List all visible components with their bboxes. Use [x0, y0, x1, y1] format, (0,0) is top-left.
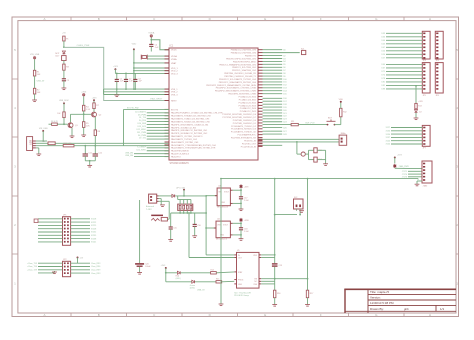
svg-text:+Chan_TX3: +Chan_TX3: [27, 263, 37, 265]
transistor Q2: [92, 112, 97, 117]
wire header rows three: [391, 127, 422, 129]
wire: [150, 46, 152, 51]
capacitor C17: [239, 196, 243, 198]
pad VIN_USB: [33, 57, 35, 59]
wire: [34, 76, 36, 88]
wire: [133, 49, 135, 89]
ground: [239, 238, 244, 240]
wire: [206, 227, 216, 229]
capacitor C12: [94, 146, 96, 154]
wire: [63, 41, 65, 47]
wire: [83, 111, 85, 122]
svg-text:(LED): (LED): [190, 288, 195, 290]
svg-text:+3V3: +3V3: [81, 91, 87, 93]
svg-text:D8: D8: [283, 73, 285, 75]
svg-text:MIC5205-3.3: MIC5205-3.3: [217, 207, 228, 209]
wire: [305, 153, 308, 155]
svg-text:JP4: JP4: [436, 60, 439, 62]
led D4 red: [177, 271, 180, 274]
svg-text:D74: D74: [382, 75, 385, 77]
ground: [415, 183, 420, 185]
svg-text:PD1/OSC_OUT: PD1/OSC_OUT: [242, 143, 257, 145]
ground: [36, 153, 41, 155]
wire: [134, 70, 169, 72]
svg-text:D1_TX0: D1_TX0: [139, 117, 146, 119]
supply arrow +3V3: [393, 164, 397, 168]
svg-text:X134: X134: [386, 134, 390, 136]
frame row ticks: [12, 78, 18, 80]
wire: [195, 281, 216, 283]
resistor R3: [63, 64, 65, 70]
wire: [233, 234, 241, 236]
ground: [299, 210, 304, 212]
svg-text:D85: D85: [382, 85, 385, 87]
svg-text:PB11/I2C2_SDA/USART3_RX/TIM2_C: PB11/I2C2_SDA/USART3_RX/TIM2_CH4: [219, 81, 257, 84]
svg-text:CHRG_PWR: CHRG_PWR: [77, 45, 90, 47]
wire: [36, 145, 63, 147]
wire: [395, 167, 422, 169]
wire: [63, 81, 65, 88]
pad node: [63, 102, 65, 104]
wire: [263, 124, 292, 126]
svg-text:1117: 1117: [55, 55, 59, 57]
svg-text:VIN_USB: VIN_USB: [30, 54, 40, 56]
component boot jumper: [302, 50, 306, 54]
svg-text:PD2/TIM3_ETR/UART5_RX: PD2/TIM3_ETR/UART5_RX: [231, 137, 257, 140]
svg-text:PA7/SPI1_MOSI/ADC12_IN7/TIM3_C: PA7/SPI1_MOSI/ADC12_IN7/TIM3_CH2: [171, 132, 208, 135]
svg-text:FB1: FB1: [42, 141, 45, 143]
wire: [71, 113, 92, 115]
svg-text:B: B: [98, 313, 100, 317]
svg-text:D10: D10: [283, 79, 286, 81]
svg-text:D13: D13: [283, 88, 286, 90]
connector JP3: [422, 31, 430, 59]
svg-text:JP3: JP3: [423, 60, 426, 62]
ground: [414, 117, 419, 119]
led D5 green: [192, 280, 195, 283]
svg-text:X140: X140: [386, 140, 390, 142]
wire: [274, 267, 276, 290]
svg-text:C19: C19: [279, 265, 282, 267]
wire: [296, 142, 298, 154]
ground: [219, 303, 224, 305]
svg-text:VDD_2: VDD_2: [171, 71, 179, 73]
wire header1 left rows: [38, 218, 63, 220]
wire: [258, 141, 339, 143]
wire: [298, 124, 327, 126]
wire: [77, 258, 79, 264]
svg-text:D18: D18: [283, 104, 286, 106]
svg-text:PA6/SPI1_MISO/ADC12_IN6/TIM3_C: PA6/SPI1_MISO/ADC12_IN6/TIM3_CH1: [171, 129, 208, 132]
wire: [139, 200, 141, 263]
svg-text:E: E: [264, 17, 266, 21]
svg-text:USB: USB: [30, 140, 33, 145]
svg-text:USB_DISC: USB_DISC: [59, 100, 70, 102]
wire: [165, 268, 167, 282]
svg-text:D54: D54: [382, 54, 385, 56]
svg-text:IO235: IO235: [91, 235, 96, 237]
svg-text:X127: X127: [386, 127, 390, 129]
svg-text:JTAG_NRST: JTAG_NRST: [150, 97, 163, 100]
title block dividers: [367, 289, 369, 313]
connector JP7: [422, 125, 430, 146]
wire: [34, 59, 36, 70]
svg-text:D7_TX1: D7_TX1: [139, 138, 146, 140]
svg-text:See : RealTouch/R: See : RealTouch/R: [234, 292, 251, 294]
svg-text:D81: D81: [382, 82, 385, 84]
resistor R15: [216, 281, 222, 283]
svg-text:PB8/TIM4_CH3/SDIO_D4/CAN_RX: PB8/TIM4_CH3/SDIO_D4/CAN_RX: [224, 72, 256, 75]
svg-text:MIC5205-3.3: MIC5205-3.3: [216, 239, 227, 241]
svg-text:Green: Green: [190, 284, 195, 287]
resistor R12: [340, 108, 342, 117]
svg-text:D6_PWM: D6_PWM: [138, 135, 147, 137]
svg-text:IC1: IC1: [170, 44, 174, 47]
svg-text:PB10/I2C2_SCL/USART3_TX/TIM2_C: PB10/I2C2_SCL/USART3_TX/TIM2_CH3: [219, 78, 257, 81]
wire: [139, 267, 141, 273]
svg-text:D64: D64: [382, 64, 385, 66]
svg-text:C16: C16: [197, 225, 200, 227]
ground: [137, 272, 142, 274]
svg-text:C15: C15: [173, 228, 176, 230]
svg-text:PA13/JTMS-SWDIO: PA13/JTMS-SWDIO: [171, 150, 189, 153]
svg-text:External: External: [146, 205, 155, 208]
wire: [206, 195, 217, 197]
svg-text:PA3/USART2_RX/ADC123_IN3/TIM2_: PA3/USART2_RX/ADC123_IN3/TIM2_CH4: [171, 120, 210, 123]
capacitor C5: [62, 78, 66, 80]
pad 3V3 led: [165, 267, 167, 269]
svg-text:IO228: IO228: [91, 228, 96, 230]
svg-text:(LED): (LED): [176, 278, 181, 280]
wire block rail: [171, 212, 206, 214]
wire CHRG net: [64, 47, 169, 100]
svg-text:1.5K: 1.5K: [86, 109, 91, 111]
connector J2 barrel jack: [149, 194, 157, 203]
ground: [160, 204, 165, 206]
resistor R7: [93, 101, 95, 103]
svg-text:R12: R12: [343, 112, 346, 114]
wire header2 right rows: [71, 262, 90, 264]
svg-text:D15: D15: [283, 93, 286, 95]
wire BOOT0: [124, 108, 170, 110]
ground: [32, 99, 37, 101]
component charger: [161, 217, 167, 221]
svg-text:JTAG_PWR: JTAG_PWR: [399, 165, 410, 168]
wire USB_DM long: [55, 142, 169, 144]
svg-text:F: F: [320, 17, 322, 21]
svg-text:GND: GND: [221, 202, 226, 204]
svg-text:PA12/USART1_RTS/USBDP/CAN_TX/T: PA12/USART1_RTS/USBDP/CAN_TX/TIM1_ETR: [171, 147, 216, 150]
svg-text:D2: D2: [419, 111, 421, 113]
IC U1 body: [169, 48, 258, 160]
wire: [258, 138, 339, 140]
svg-text:PC11/UART4_RX/SDIO_D3: PC11/UART4_RX/SDIO_D3: [231, 128, 257, 131]
svg-text:PC10/UART4_TX/SDIO_D2: PC10/UART4_TX/SDIO_D2: [231, 125, 257, 128]
led D2: [415, 110, 418, 113]
svg-text:PB12/SPI2_NSS/I2C2_SMBA/USART3: PB12/SPI2_NSS/I2C2_SMBA/USART3_CK/TIM1_B…: [206, 84, 256, 87]
wire: [335, 124, 341, 126]
svg-text:PB14/SPI2_MISO/USART3_RTS/TIM1: PB14/SPI2_MISO/USART3_RTS/TIM1_CH2N: [215, 90, 257, 93]
svg-text:VDD5: VDD5: [171, 50, 177, 52]
wire: [150, 38, 152, 45]
svg-text:VSS_3: VSS_3: [171, 94, 178, 96]
wire block pins: [179, 200, 181, 205]
svg-text:BOOT0_PB2: BOOT0_PB2: [127, 108, 140, 110]
resistor R16: [274, 290, 276, 298]
diode D1: [62, 51, 65, 54]
title block border: [344, 289, 346, 313]
svg-text:+3V3: +3V3: [418, 101, 422, 103]
node CHRG junction: [63, 46, 65, 48]
svg-text:VDD: VDD: [339, 99, 344, 101]
wire: [261, 257, 275, 259]
svg-text:SJ1: SJ1: [301, 48, 304, 50]
resistor R14: [211, 272, 217, 274]
capacitor C11: [84, 146, 86, 154]
wire: [340, 102, 342, 109]
svg-text:R16: R16: [277, 293, 280, 295]
svg-text:D33: D33: [382, 33, 385, 35]
svg-text:D14: D14: [283, 91, 286, 93]
svg-text:D0: D0: [283, 50, 285, 52]
svg-text:D24: D24: [283, 122, 286, 124]
wire: [159, 198, 162, 200]
wire: [94, 117, 96, 130]
svg-text:2.2uF: 2.2uF: [244, 231, 250, 233]
ground: [323, 163, 328, 165]
crystal Y2 8MHz: [339, 135, 347, 145]
svg-text:PA11/USART1_CTS/USBDM/CAN_RX/T: PA11/USART1_CTS/USBDM/CAN_RX/TIM1_CH4: [171, 144, 217, 147]
capacitor C14: [314, 157, 317, 162]
svg-text:PB2/BOOT1: PB2/BOOT1: [245, 55, 257, 57]
wire: [261, 283, 275, 285]
wire: [83, 96, 85, 105]
capacitor C19 inline: [272, 263, 278, 264]
wire: [63, 70, 65, 79]
wire: [147, 58, 169, 60]
svg-text:IO232: IO232: [91, 232, 96, 234]
svg-text:D36: D36: [382, 37, 385, 39]
wire: [261, 280, 275, 282]
svg-text:VDD_1: VDD_1: [171, 68, 179, 70]
svg-text:VIN_USB: VIN_USB: [39, 128, 48, 130]
svg-text:D12: D12: [283, 85, 286, 87]
wire rail left: [220, 179, 222, 304]
svg-text:PB13/SPI2_SCK/USART3_CTS/TIM1_: PB13/SPI2_SCK/USART3_CTS/TIM1_CH1N: [216, 87, 257, 90]
capacitor C1: [116, 73, 118, 79]
svg-text:PC2/ADC123_IN12: PC2/ADC123_IN12: [239, 101, 257, 104]
svg-text:1/1: 1/1: [440, 307, 445, 311]
svg-text:D50: D50: [382, 51, 385, 53]
transistor Q1: [68, 123, 73, 128]
svg-text:GND: GND: [238, 284, 243, 286]
connector JP5: [422, 63, 430, 93]
svg-text:PC6/I2S2_MCK/TIM8_CH1/SDIO_D6: PC6/I2S2_MCK/TIM8_CH1/SDIO_D6: [223, 114, 257, 116]
wire: [104, 91, 170, 93]
svg-text:PB0/ADC12_IN8/TIM3_CH3: PB0/ADC12_IN8/TIM3_CH3: [231, 49, 257, 52]
svg-text:D67: D67: [382, 68, 385, 70]
svg-text:R14: R14: [211, 270, 214, 272]
svg-text:D13_SCK: D13_SCK: [138, 126, 147, 128]
pad VIN_USB2: [42, 130, 44, 132]
wire: [222, 280, 235, 283]
svg-text:IO218: IO218: [91, 219, 96, 221]
svg-text:Chan_RX9: Chan_RX9: [91, 270, 100, 272]
wire: [205, 196, 207, 255]
wire: [233, 202, 241, 204]
svg-text:PB6/I2C1_SCL/TIM4_CH1: PB6/I2C1_SCL/TIM4_CH1: [232, 67, 257, 69]
svg-text:X130: X130: [386, 131, 390, 133]
svg-text:D2: D2: [283, 55, 285, 57]
wire rail mid: [274, 179, 276, 264]
svg-text:PC1/ADC123_IN11: PC1/ADC123_IN11: [239, 98, 257, 101]
wire: [261, 254, 275, 256]
capacitor C18: [239, 227, 243, 229]
svg-text:JTAG: JTAG: [423, 185, 428, 188]
svg-text:PB4/JNTRST/SPI3_MISO: PB4/JNTRST/SPI3_MISO: [233, 61, 257, 63]
svg-text:R15: R15: [216, 279, 219, 281]
pad 3V3 left: [114, 68, 116, 70]
svg-text:PROG: PROG: [238, 280, 244, 282]
svg-text:VDD: VDD: [132, 44, 137, 46]
svg-text:+3V3: +3V3: [244, 186, 248, 188]
svg-text:PC9/TIM8_CH4/SDIO_D1: PC9/TIM8_CH4/SDIO_D1: [233, 123, 257, 125]
svg-text:SJ2: SJ2: [294, 197, 297, 199]
wire LED branch: [415, 86, 417, 104]
wire: [263, 144, 283, 146]
ground: [70, 135, 75, 137]
connector JP2: [63, 261, 71, 276]
capacitor C15: [170, 213, 172, 227]
frame inner border: [18, 21, 456, 313]
resistor R5: [83, 122, 85, 128]
IC left pin stubs bundle: [165, 112, 170, 114]
svg-text:PA14/JTCK-SWCLK: PA14/JTCK-SWCLK: [171, 153, 190, 156]
svg-text:PB3/JTDO/SPI3_SCK/TIM2_CH2: PB3/JTDO/SPI3_SCK/TIM2_CH2: [226, 58, 257, 60]
svg-text:PC3/ADC123_IN13: PC3/ADC123_IN13: [239, 104, 257, 107]
IC right pin stubs osc: [258, 138, 263, 140]
wire: [296, 209, 298, 211]
resistor R2: [33, 88, 35, 94]
pad 3V3 jtag: [394, 157, 396, 159]
svg-text:PA2/USART2_TX/ADC123_IN2/TIM2_: PA2/USART2_TX/ADC123_IN2/TIM2_CH3: [171, 118, 210, 121]
resistor R4: [83, 105, 85, 111]
svg-text:A: A: [43, 313, 45, 317]
svg-text:Chan_RX3: Chan_RX3: [91, 273, 100, 275]
wire: [159, 200, 170, 202]
inductor L1: [48, 142, 55, 145]
svg-text:D5: D5: [283, 64, 285, 66]
ground: [62, 87, 67, 89]
pad VIN jack: [183, 189, 185, 191]
svg-text:D71: D71: [382, 71, 385, 73]
note battery bar: [151, 215, 163, 217]
wire: [38, 272, 55, 274]
wire: [233, 222, 241, 224]
svg-text:D23: D23: [283, 119, 286, 121]
fuse F1: [63, 36, 65, 41]
svg-text:D88: D88: [382, 89, 385, 91]
wire: [183, 190, 185, 196]
wire header2 left rows: [38, 262, 63, 264]
node: [133, 62, 135, 64]
ground: [87, 164, 92, 166]
wire: [166, 272, 178, 274]
wire: [167, 218, 169, 220]
wire: [63, 103, 65, 112]
svg-text:PC4/ADC12_IN14: PC4/ADC12_IN14: [240, 107, 257, 110]
svg-text:Version:: Version:: [370, 296, 381, 300]
svg-text:IO222: IO222: [91, 222, 96, 224]
wire: [134, 62, 169, 64]
svg-text:JP5: JP5: [423, 95, 426, 97]
svg-text:PB15/SPI2_MOSI/TIM1_CH3N: PB15/SPI2_MOSI/TIM1_CH3N: [228, 94, 256, 96]
supply arrow A2: [239, 218, 243, 222]
svg-text:7-18V: 7-18V: [146, 209, 152, 211]
wire: [70, 114, 72, 122]
wire: [159, 195, 172, 197]
svg-text:D2_USART2: D2_USART2: [135, 110, 146, 113]
crystal Y3 32kHz: [301, 152, 305, 156]
wire group1 right: [263, 49, 283, 51]
svg-text:D28: D28: [283, 134, 286, 136]
svg-text:VDDA: VDDA: [148, 31, 155, 34]
svg-text:NRST: NRST: [171, 100, 177, 102]
svg-text:D26: D26: [283, 127, 286, 129]
svg-text:JT171: JT171: [402, 171, 407, 173]
svg-text:gkb: gkb: [404, 307, 409, 311]
wire: [104, 94, 170, 96]
svg-text:D4: D4: [283, 61, 285, 63]
wire: [206, 254, 234, 256]
svg-text:USB_DM: USB_DM: [125, 152, 133, 154]
wire: [394, 158, 396, 164]
pad VDD button: [340, 101, 342, 103]
svg-text:D27: D27: [283, 131, 286, 133]
wire VSS rail: [104, 88, 170, 90]
pad VDD: [133, 48, 135, 50]
wire: [94, 136, 96, 146]
svg-text:USB_DM: USB_DM: [125, 155, 133, 157]
connector JP4: [435, 31, 443, 59]
svg-text:D57: D57: [382, 58, 385, 60]
svg-text:D3_PWM: D3_PWM: [138, 114, 147, 116]
svg-text:PB9/TIM4_CH4/SDIO_D5/CAN_TX: PB9/TIM4_CH4/SDIO_D5/CAN_TX: [224, 75, 256, 78]
svg-text:D0_RX0: D0_RX0: [139, 120, 146, 122]
svg-text:LIPO_VIN: LIPO_VIN: [176, 188, 186, 190]
wire: [274, 298, 276, 305]
connector JP8 JTAG: [422, 161, 432, 183]
svg-text:Chan_RX6: Chan_RX6: [91, 266, 100, 268]
svg-text:Title: maple-r5: Title: maple-r5: [370, 290, 389, 294]
wire: [307, 298, 309, 305]
IC right pin stubs: [258, 49, 263, 51]
resistor R8: [94, 130, 96, 136]
wire group2 right: [263, 97, 283, 99]
note squiggle: [151, 218, 159, 221]
svg-text:D40: D40: [382, 40, 385, 42]
svg-text:PA0-WKUP/USART2_CTS/ADC123_IN0: PA0-WKUP/USART2_CTS/ADC123_IN0/TIM2_CH1_…: [171, 112, 223, 115]
wire: [42, 131, 44, 141]
capacitor C16: [194, 213, 196, 224]
svg-text:D43: D43: [382, 44, 385, 46]
wire jtag long: [221, 178, 418, 180]
svg-text:PA15/JTDI: PA15/JTDI: [171, 156, 181, 159]
svg-text:D3: D3: [283, 58, 285, 60]
ground: [272, 304, 277, 306]
resistor R17: [306, 290, 308, 298]
wire bundle left: [147, 112, 169, 114]
